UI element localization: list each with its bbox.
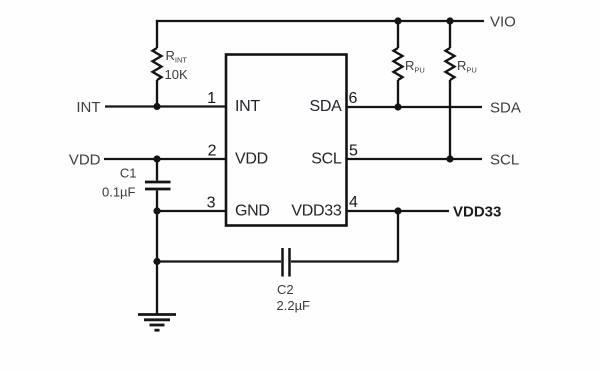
svg-text:C1: C1 (120, 166, 137, 181)
capacitor C2 (283, 248, 290, 277)
resistor R_PU1 (394, 48, 403, 80)
wire: left vertical GND line down to C2 rail (156, 211, 158, 262)
node: junction VDD33 / C2 branch (394, 207, 401, 214)
svg-text:2.2µF: 2.2µF (277, 298, 311, 313)
wire: R_PU2 bottom lead to SCL (crosses SDA line) (449, 80, 451, 159)
node: junction R_INT / INT (153, 103, 160, 110)
wire: R_INT top lead (corner from VIO rail) (156, 20, 158, 48)
node: junction C1 / GND line (153, 207, 160, 214)
node: junction R_PU1 / SDA (394, 103, 401, 110)
svg-text:INT: INT (235, 98, 260, 115)
wire: R_PU1 bottom lead to SDA (397, 80, 399, 107)
svg-text:GND: GND (235, 203, 270, 220)
svg-text:VDD: VDD (235, 151, 268, 168)
svg-text:RPU: RPU (457, 58, 477, 75)
wire: SDA pin 6 line (347, 106, 483, 108)
svg-text:VDD: VDD (69, 152, 101, 169)
wire: SCL pin 5 line (347, 158, 483, 160)
node: junction C2 rail / ground (153, 258, 160, 265)
svg-text:5: 5 (349, 143, 358, 160)
wire: VIO top rail (156, 20, 484, 22)
svg-text:2: 2 (208, 143, 217, 160)
svg-text:C2: C2 (277, 282, 294, 297)
wire: GND pin 3 line (157, 210, 226, 212)
wire: VDD down to C1 top plate (156, 159, 158, 181)
svg-text:0.1µF: 0.1µF (102, 185, 136, 200)
svg-text:1: 1 (207, 90, 216, 107)
svg-text:RPU: RPU (405, 58, 425, 75)
svg-text:SDA: SDA (490, 100, 521, 117)
svg-text:VDD33: VDD33 (453, 204, 501, 221)
svg-text:4: 4 (349, 194, 358, 211)
node: junction VIO rail / R_PU2 (446, 17, 453, 24)
wire: vertical from VDD33 node down to C2 rail (397, 211, 399, 262)
svg-text:10K: 10K (165, 67, 188, 82)
node: junction R_PU2 / SCL (446, 155, 453, 162)
resistor R_INT (153, 48, 162, 80)
wire: C1 bottom plate down to GND pin line (156, 191, 158, 212)
wire: VDD33 pin 4 line (347, 210, 450, 212)
svg-text:6: 6 (349, 90, 358, 107)
wire: C2 rail left segment (157, 260, 281, 262)
svg-text:RINT: RINT (166, 48, 188, 65)
wire: R_PU1 top lead (397, 21, 399, 48)
wire: R_PU2 top lead (449, 21, 451, 48)
svg-text:VDD33: VDD33 (291, 203, 341, 220)
wire: VDD pin 2 line (104, 158, 226, 160)
ground symbol (138, 315, 176, 331)
IC U1 body (226, 55, 347, 226)
resistor R_PU2 (446, 48, 455, 80)
wire: C2 rail right segment (291, 260, 398, 262)
svg-text:SCL: SCL (311, 151, 342, 168)
wire: ground stem (156, 262, 158, 315)
node: junction VDD / C1 (153, 155, 160, 162)
svg-text:SDA: SDA (310, 98, 343, 115)
svg-text:3: 3 (207, 195, 216, 212)
wire: R_INT bottom lead to INT line (156, 80, 158, 107)
svg-text:VIO: VIO (490, 14, 516, 31)
svg-text:SCL: SCL (490, 152, 519, 169)
capacitor C1 (145, 182, 171, 189)
wire: INT pin 1 line (105, 105, 226, 107)
svg-text:INT: INT (76, 99, 100, 116)
node: junction VIO rail / R_PU1 (394, 17, 401, 24)
